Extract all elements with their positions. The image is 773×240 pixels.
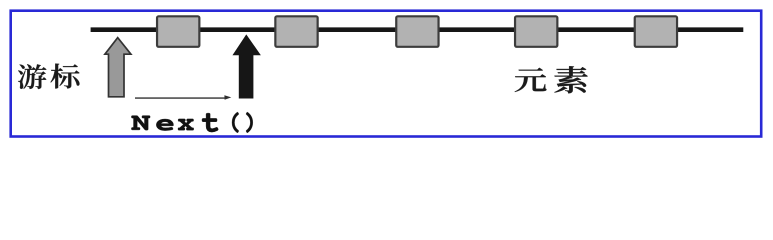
next-position arrow (black, up) [233, 35, 260, 98]
node box 4 [515, 16, 557, 47]
node box 1 [157, 16, 199, 47]
cursor arrow (gray, up) [105, 38, 131, 97]
node box 3 [396, 16, 438, 47]
label 元素 (element) [515, 66, 588, 93]
label 游标 (cursor) [18, 64, 79, 89]
wire: Next() call arrow [135, 95, 231, 100]
node box 2 [275, 16, 317, 47]
label Next() [131, 112, 252, 133]
wire: linked-list backbone line [91, 27, 744, 32]
node box 5 [635, 16, 677, 47]
